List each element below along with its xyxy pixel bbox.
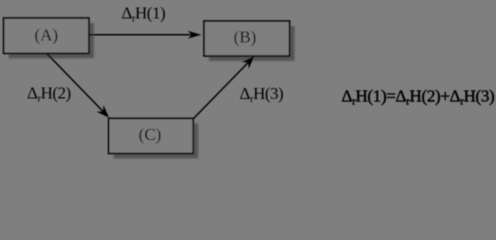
svg-text:(A): (A) xyxy=(34,25,58,44)
svg-text:ΔrH(1)=ΔrH(2)+ΔrH(3): ΔrH(1)=ΔrH(2)+ΔrH(3) xyxy=(342,87,495,108)
box C xyxy=(109,118,194,153)
svg-text:ΔrH(2): ΔrH(2) xyxy=(27,84,71,105)
box C shadow xyxy=(114,123,199,158)
svg-text:ΔrH(1): ΔrH(1) xyxy=(121,3,165,24)
svg-text:(C): (C) xyxy=(139,125,162,144)
wire arrow A to B xyxy=(89,31,201,39)
box B xyxy=(204,21,290,56)
wire arrow A to C xyxy=(47,53,109,117)
svg-text:(B): (B) xyxy=(234,27,257,46)
box B shadow xyxy=(209,26,295,61)
svg-text:ΔrH(3): ΔrH(3) xyxy=(240,84,284,105)
wire arrow C to B xyxy=(193,56,254,118)
box A shadow xyxy=(9,23,94,58)
box A xyxy=(4,18,89,53)
